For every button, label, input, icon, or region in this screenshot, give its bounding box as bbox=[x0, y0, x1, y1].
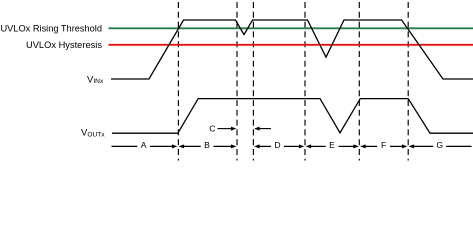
svg-text:E: E bbox=[329, 140, 335, 150]
VINx waveform bbox=[111, 20, 473, 79]
dashed time marker t1 bbox=[177, 2, 179, 161]
svg-text:A: A bbox=[141, 140, 147, 150]
interval B arrow bbox=[179, 144, 185, 148]
svg-text:G: G bbox=[436, 140, 443, 150]
interval G arrow bbox=[409, 144, 415, 148]
VOUTx waveform bbox=[112, 99, 473, 134]
dashed time marker t6 bbox=[407, 2, 409, 161]
svg-text:D: D bbox=[274, 140, 280, 150]
svg-text:UVLOx Rising Threshold: UVLOx Rising Threshold bbox=[1, 23, 103, 34]
interval E arrow bbox=[306, 144, 312, 148]
dashed time marker t5 bbox=[358, 2, 360, 161]
interval D arrow bbox=[254, 144, 260, 148]
svg-text:C: C bbox=[209, 124, 215, 134]
svg-text:F: F bbox=[381, 140, 386, 150]
dashed time marker t3 bbox=[252, 2, 254, 161]
dashed time marker t4 bbox=[304, 2, 306, 161]
UVLOx rising threshold line (green) bbox=[109, 27, 473, 29]
svg-text:UVLOx Hysteresis: UVLOx Hysteresis bbox=[26, 40, 102, 51]
UVLOx hysteresis line (red) bbox=[109, 44, 473, 46]
dashed time marker t2 bbox=[236, 2, 238, 161]
interval A arrow bbox=[112, 145, 173, 147]
svg-text:B: B bbox=[204, 140, 210, 150]
interval F arrow bbox=[360, 144, 366, 148]
